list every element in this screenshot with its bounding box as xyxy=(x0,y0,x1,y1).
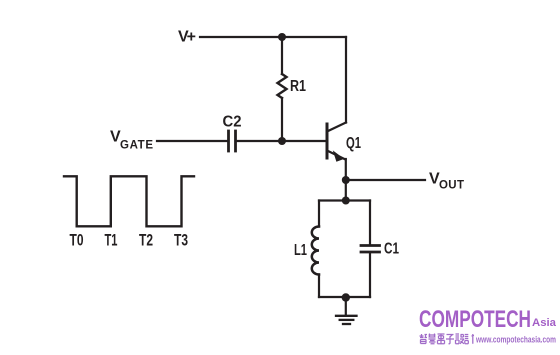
wire V_GATE to C2 xyxy=(157,140,227,142)
wire C1 bottom lead xyxy=(369,254,371,298)
wire C2 to base xyxy=(237,140,326,142)
node junction top (dot) xyxy=(278,33,286,41)
wire tank bottom xyxy=(319,296,370,298)
svg-text:C2: C2 xyxy=(223,114,242,131)
node ground junction (dot) xyxy=(342,293,350,301)
wire to V_OUT xyxy=(346,179,425,181)
node tank top junction (dot) xyxy=(342,197,350,205)
wire L1 bottom lead xyxy=(318,275,320,298)
wire collector vertical xyxy=(345,37,347,123)
svg-text:T1: T1 xyxy=(105,232,118,250)
resistor R1 xyxy=(278,74,287,98)
svg-text:OUT: OUT xyxy=(439,180,464,192)
capacitor C2 xyxy=(229,131,236,151)
inductor L1 xyxy=(312,227,319,275)
transistor Q1 base bar xyxy=(326,124,329,158)
wire L1 top lead xyxy=(318,201,320,227)
wire R1 bottom lead xyxy=(281,98,283,141)
wire ground stub xyxy=(345,298,347,316)
wire emitter down xyxy=(345,159,347,200)
wire tank top xyxy=(319,199,370,201)
transistor Q1 collector diagonal xyxy=(328,123,346,132)
svg-text:COMPOTECH: COMPOTECH xyxy=(419,306,531,333)
logo tagline fake kanji 智慧電子設計 xyxy=(420,334,475,344)
svg-text:www.compotechasia.com: www.compotechasia.com xyxy=(475,335,556,346)
transistor Q1 emitter diagonal xyxy=(328,151,346,160)
svg-text:L1: L1 xyxy=(294,242,307,259)
node V_GATE label xyxy=(110,129,153,152)
waveform V_GATE square wave xyxy=(64,176,194,226)
capacitor C1 xyxy=(361,246,380,253)
wire R1 top lead xyxy=(281,37,283,74)
node V_OUT junction (dot) xyxy=(342,176,350,184)
svg-text:T2: T2 xyxy=(139,232,153,250)
svg-text:Q1: Q1 xyxy=(346,135,361,152)
ground xyxy=(336,316,357,324)
svg-text:V+: V+ xyxy=(178,29,196,46)
logo COMPOTECH xyxy=(419,306,557,333)
node V_OUT label xyxy=(429,171,464,192)
svg-text:T3: T3 xyxy=(174,232,188,250)
svg-text:R1: R1 xyxy=(290,78,306,95)
svg-text:GATE: GATE xyxy=(120,140,153,152)
svg-text:Asia: Asia xyxy=(532,317,557,329)
transistor Q1 emitter arrow xyxy=(333,150,344,161)
svg-text:C1: C1 xyxy=(384,241,399,258)
wire V+ rail horizontal xyxy=(200,36,346,38)
node base junction (dot) xyxy=(278,137,286,145)
svg-text:T0: T0 xyxy=(70,232,84,250)
wire C1 top lead xyxy=(369,201,371,245)
